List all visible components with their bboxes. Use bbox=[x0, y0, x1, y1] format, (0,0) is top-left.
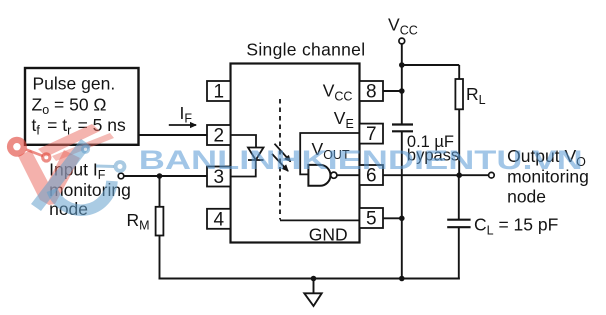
ground symbol triangle bbox=[304, 293, 321, 306]
svg-text:8: 8 bbox=[366, 82, 377, 103]
pin 1 box bbox=[207, 81, 231, 101]
svg-text:2: 2 bbox=[214, 126, 225, 147]
svg-text:Single channel: Single channel bbox=[246, 40, 365, 60]
pin 7 box bbox=[360, 124, 384, 144]
junction input node RM bbox=[157, 173, 163, 179]
svg-text:VCC: VCC bbox=[323, 81, 353, 104]
wire RL bottom lead to output node bbox=[458, 109, 460, 175]
output gate U1b bbox=[308, 165, 330, 186]
svg-text:Pulse gen.: Pulse gen. bbox=[33, 74, 116, 94]
svg-text:BANLINHKIENDIENTU.VN: BANLINHKIENDIENTU.VN bbox=[139, 144, 583, 174]
wire pin2 internal to LED anode bbox=[231, 135, 257, 148]
wire VCC stem lower bbox=[401, 131, 403, 279]
svg-text:IF: IF bbox=[180, 103, 193, 126]
watermark logo pink V swoosh bbox=[18, 150, 80, 205]
label 0.1 uF bypass bbox=[407, 133, 459, 165]
pin 6 box bbox=[360, 165, 384, 185]
wire pin 5 to GND rail bbox=[383, 217, 402, 219]
pin 5 box bbox=[360, 208, 384, 228]
wire pulse gen to pin 2 bbox=[139, 134, 207, 136]
junction pin5 GND bbox=[399, 216, 405, 222]
junction pin8 VCC bbox=[399, 88, 405, 94]
svg-text:Zo = 50 Ω: Zo = 50 Ω bbox=[32, 94, 107, 117]
optical barrier dashed line bbox=[279, 99, 281, 220]
node output monitoring (open circle) bbox=[489, 172, 495, 178]
wire LED cathode to pin3 internal bbox=[231, 160, 256, 177]
pin 2 box bbox=[207, 125, 231, 145]
LED cathode bar bbox=[248, 159, 264, 161]
resistor RM bbox=[156, 207, 164, 236]
watermark logo pink trace bbox=[26, 150, 43, 157]
internal GND wire to pin 5 bbox=[280, 219, 360, 221]
light arrow 1 bbox=[275, 144, 291, 162]
pin 8 box bbox=[360, 81, 384, 101]
node input monitoring (open circle) bbox=[118, 173, 124, 179]
VCC terminal circle bbox=[399, 38, 405, 44]
svg-text:7: 7 bbox=[366, 124, 377, 145]
junction VCC top rail bbox=[399, 62, 405, 68]
capacitor C1 bypass plates bbox=[392, 125, 413, 132]
svg-text:CL = 15 pF: CL = 15 pF bbox=[474, 215, 558, 238]
svg-text:VCC: VCC bbox=[388, 15, 418, 38]
wire RL top lead bbox=[458, 65, 460, 79]
watermark logo blue trace bbox=[96, 165, 114, 169]
svg-text:GND: GND bbox=[309, 224, 348, 244]
ground rail wire bbox=[159, 278, 460, 280]
watermark logo pink pad circle bbox=[7, 137, 27, 157]
light arrow 2 bbox=[272, 154, 288, 171]
svg-text:5: 5 bbox=[366, 209, 377, 230]
junction ground symbol bbox=[311, 276, 317, 282]
pulse generator box bbox=[25, 68, 139, 145]
junction output node bbox=[456, 172, 462, 178]
svg-text:node: node bbox=[507, 187, 546, 207]
watermark logo pink stripe upper bbox=[38, 124, 100, 157]
wire RM top lead bbox=[159, 176, 161, 207]
LED D1 triangle bbox=[248, 148, 264, 161]
wire input node to pin 3 bbox=[124, 175, 207, 177]
watermark logo pink stripe thin bbox=[52, 133, 114, 161]
ground stub bbox=[313, 279, 315, 294]
pin 3 box bbox=[207, 167, 231, 187]
svg-text:1: 1 bbox=[214, 82, 225, 103]
wire CL bottom lead bbox=[458, 227, 460, 279]
arrow IF bbox=[169, 124, 196, 126]
wire pin 8 to VCC rail bbox=[383, 90, 402, 92]
svg-text:RM: RM bbox=[127, 210, 150, 233]
watermark logo small pink pad bbox=[41, 152, 51, 162]
wire pin 6 to output node bbox=[383, 174, 459, 176]
wire CL top lead bbox=[458, 175, 460, 220]
watermark logo blue diagonal stripe bbox=[31, 139, 91, 211]
wire VCC stem upper bbox=[401, 44, 403, 125]
pin 4 box bbox=[207, 209, 231, 229]
resistor RL bbox=[455, 79, 463, 109]
svg-text:4: 4 bbox=[214, 209, 225, 230]
wire output node to terminal bbox=[459, 174, 488, 176]
watermark logo blue pad right bbox=[114, 160, 127, 173]
gate inversion bubble bbox=[331, 172, 337, 178]
wire top rail to RL bbox=[402, 64, 459, 66]
wire gate to pin 6 bbox=[337, 174, 360, 176]
svg-text:RL: RL bbox=[466, 84, 486, 107]
capacitor CL plates bbox=[447, 220, 470, 228]
svg-text:VE: VE bbox=[334, 108, 354, 131]
enable wire from pin 7 to gate input bbox=[300, 133, 359, 174]
IC U1 body bbox=[231, 64, 360, 243]
junction GND rail VCC line bbox=[399, 276, 405, 282]
watermark logo small blue pad top bbox=[81, 145, 90, 154]
label Input IF monitoring node bbox=[49, 160, 131, 219]
watermark logo blue arc bbox=[52, 181, 112, 210]
label Output VO monitoring node bbox=[507, 146, 589, 207]
wire RM bottom lead bbox=[159, 236, 161, 280]
